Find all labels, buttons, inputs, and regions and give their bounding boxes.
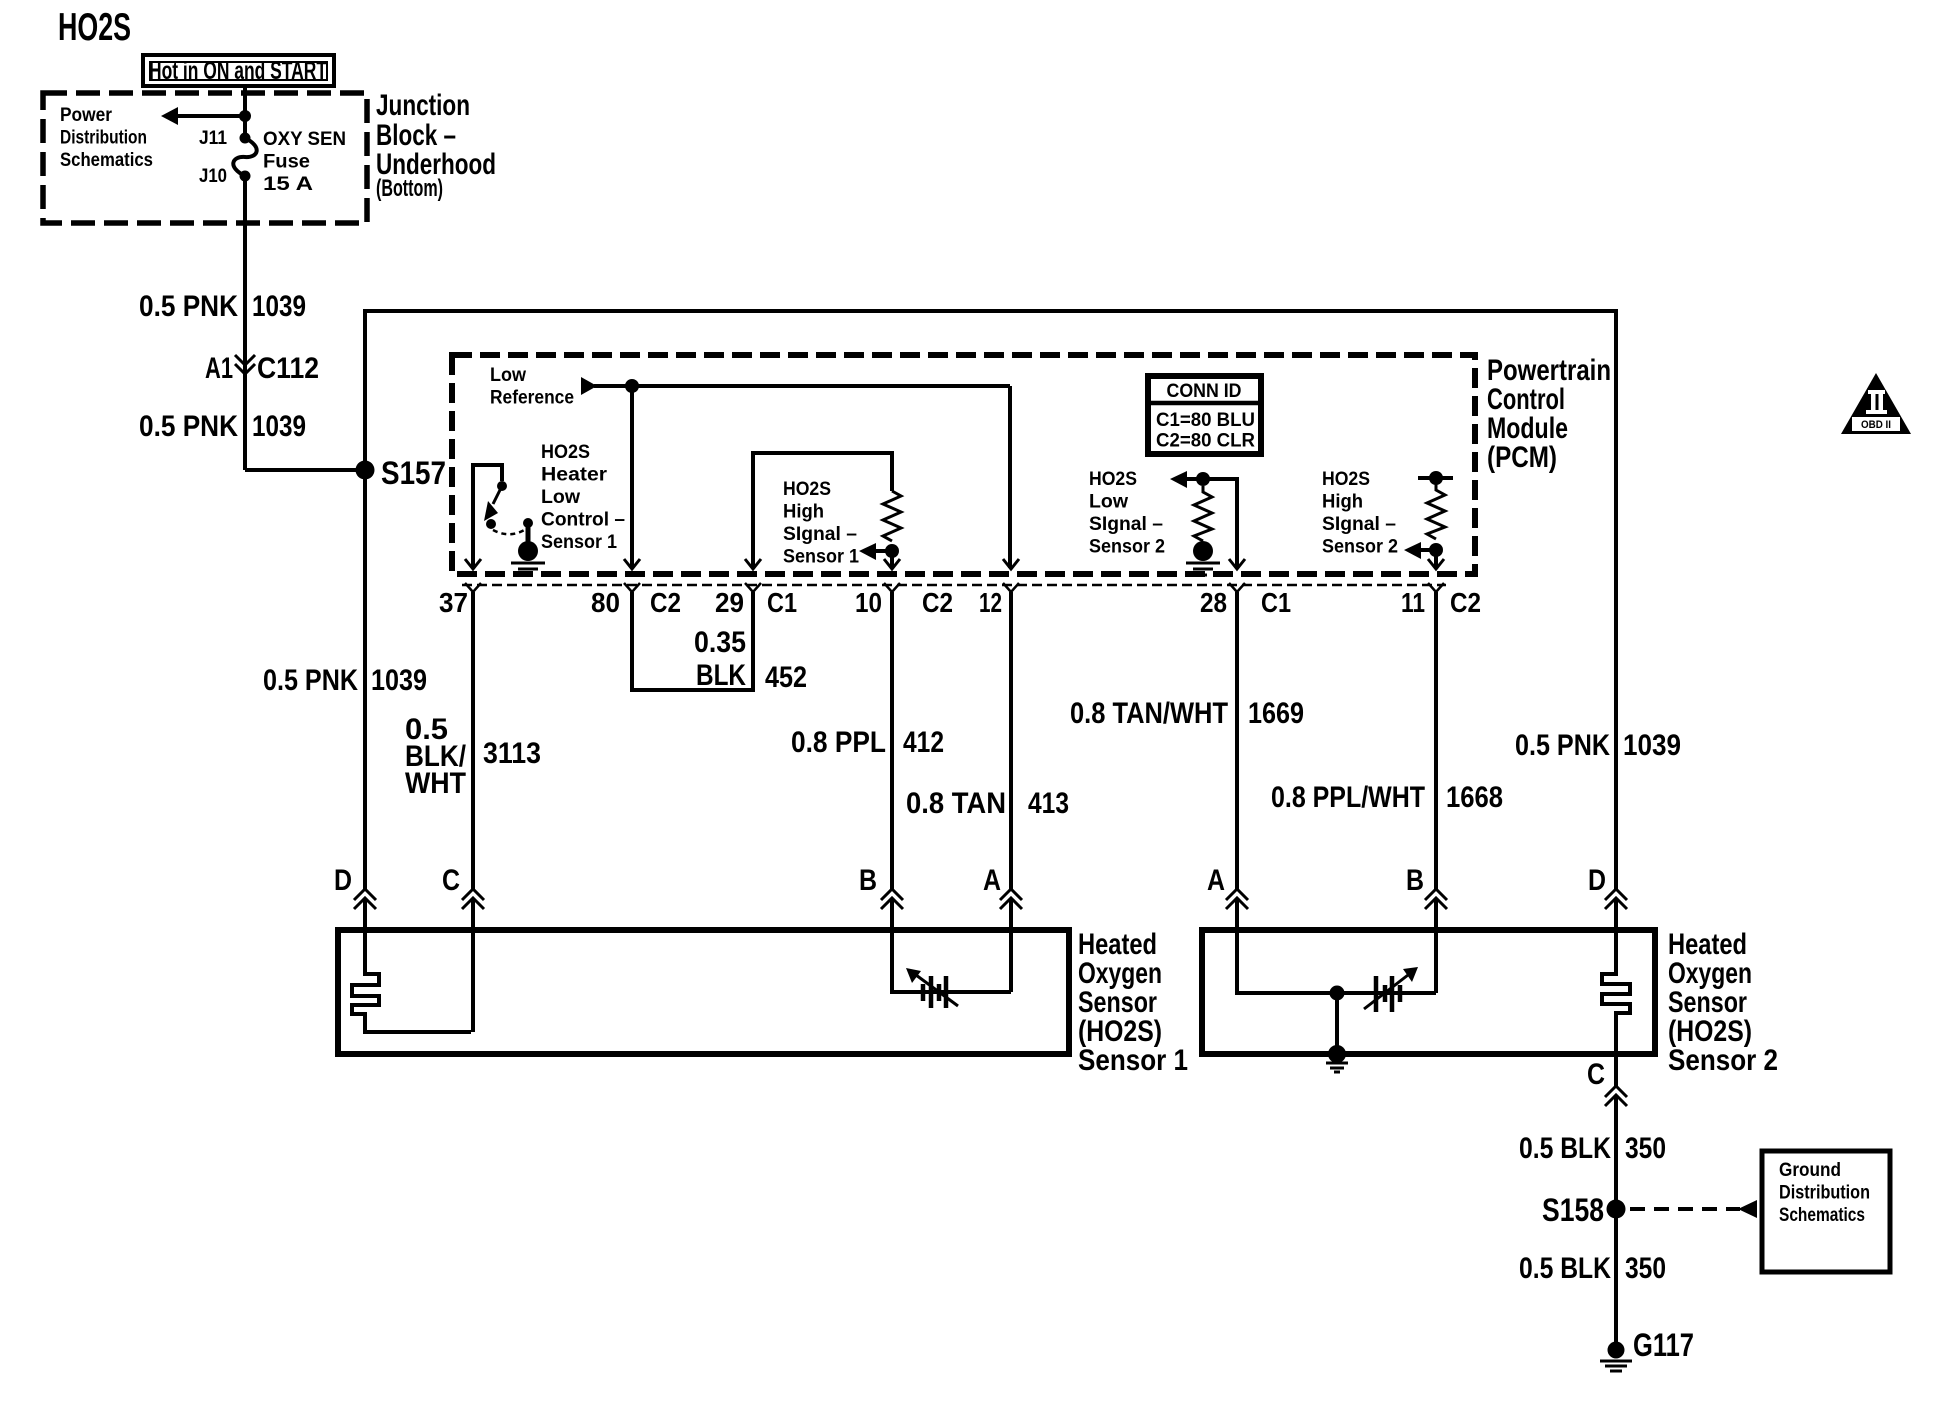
splice S158 [1607, 1200, 1626, 1219]
svg-text:SIgnal –: SIgnal – [783, 524, 857, 545]
pin arrow at pin 10 [884, 559, 900, 569]
node junction on low reference rail [625, 379, 639, 393]
pin arrow at pin 37 [465, 559, 481, 569]
svg-text:SIgnal –: SIgnal – [1089, 514, 1163, 535]
PCM dashed box [452, 355, 1475, 574]
node J11 [240, 133, 251, 144]
svg-text:D: D [1588, 864, 1606, 897]
pin terminal fork 11 [1428, 583, 1444, 592]
Ground Distribution Schematics box [1762, 1151, 1890, 1272]
svg-text:Control –: Control – [541, 510, 625, 531]
connector chevrons sensor1 pin A [1000, 889, 1022, 909]
svg-text:High: High [783, 502, 824, 523]
wires pin stubs into sensor 1 [365, 899, 1616, 930]
svg-text:BLK: BLK [696, 659, 746, 692]
svg-text:HO2S: HO2S [783, 479, 831, 500]
svg-text:350: 350 [1625, 1252, 1666, 1285]
wire low signal sensor 2 to pin 28 [1185, 479, 1237, 568]
svg-text:OBD II: OBD II [1861, 419, 1891, 431]
node J10 [240, 171, 251, 182]
svg-text:37: 37 [439, 587, 468, 618]
svg-text:WHT: WHT [405, 767, 466, 800]
pin arrow at pin 12 [1003, 559, 1019, 569]
junction block J1 dashed box [43, 93, 367, 223]
pin arrow at pin 11 [1428, 559, 1444, 569]
wire arrow tap high signal sensor 2 [1420, 548, 1436, 552]
switch contact dot left [486, 519, 496, 529]
arrowhead to Power Distribution Schematics [161, 107, 178, 125]
sensor 2 box Heated Oxygen Sensor (HO2S) Sensor 2 [1202, 930, 1655, 1054]
svg-text:Power: Power [60, 105, 113, 126]
wire contact to ground [526, 523, 531, 542]
wire 0.8 TAN 413 pin12 to sensor1 A [1009, 592, 1013, 889]
wire PNK bus: left drop, top rail, right drop [365, 311, 1616, 889]
svg-text:0.5 BLK: 0.5 BLK [1519, 1132, 1611, 1165]
svg-text:413: 413 [1028, 787, 1069, 820]
wire 0.5 BLK/WHT 3113 pin37 to sensor1 C [471, 592, 475, 889]
arrowhead to Ground Distribution Schematics [1738, 1200, 1757, 1218]
connector C112 pin A1 (inline double chevron) [235, 355, 255, 374]
svg-text:29: 29 [715, 587, 744, 618]
svg-text:C2: C2 [1450, 587, 1481, 618]
resistor HO2S high signal sensor 2 [1427, 478, 1445, 539]
svg-text:0.8 TAN/WHT: 0.8 TAN/WHT [1070, 697, 1228, 730]
pin arrow at pin 28 [1229, 559, 1245, 569]
sensing element bars sensor 1 [923, 976, 946, 1008]
svg-text:412: 412 [903, 726, 944, 759]
svg-text:Sensor 2: Sensor 2 [1322, 537, 1398, 558]
pin terminal fork 12 [1003, 583, 1019, 592]
svg-text:C2=80 CLR: C2=80 CLR [1156, 431, 1255, 452]
wire low reference rail [594, 384, 1010, 388]
svg-text:Sensor 2: Sensor 2 [1089, 537, 1165, 558]
svg-text:Schematics: Schematics [60, 150, 153, 171]
svg-text:0.8 PPL: 0.8 PPL [791, 726, 886, 759]
sensing element arrow sensor 2 [1364, 975, 1408, 1009]
svg-text:15 A: 15 A [263, 174, 313, 195]
svg-text:B: B [859, 864, 877, 897]
switch HO2S heater low control driver [473, 465, 502, 568]
svg-text:Distribution: Distribution [1779, 1183, 1870, 1204]
svg-text:D: D [334, 864, 352, 897]
svg-text:B: B [1406, 864, 1424, 897]
svg-text:(Bottom): (Bottom) [376, 175, 443, 202]
svg-text:OXY SEN: OXY SEN [263, 129, 346, 150]
node junction dot at hot feed branch [239, 110, 251, 122]
svg-text:Fuse: Fuse [263, 152, 310, 173]
svg-text:HO2S: HO2S [541, 442, 590, 463]
node resistor top junction (low signal sensor 2) [1196, 472, 1210, 486]
connector chevrons sensor1 pin C [462, 889, 484, 909]
svg-text:C2: C2 [650, 587, 681, 618]
wire 0.8 PPL 412 pin10 to sensor1 B [890, 592, 894, 889]
connector chevrons sensor1 pin B [881, 889, 903, 909]
svg-text:1668: 1668 [1446, 781, 1503, 814]
svg-text:C2: C2 [922, 587, 953, 618]
connector chevrons sensor1 pin D [354, 889, 376, 909]
svg-text:HO2S: HO2S [1322, 469, 1370, 490]
svg-text:S158: S158 [1542, 1192, 1604, 1228]
fuse OXY SEN Fuse 15 A [233, 138, 256, 176]
arrowhead low signal sensor 2 [1170, 471, 1187, 488]
ground symbol (PCM internal, low signal sensor 2) [1193, 541, 1213, 561]
wire pin 29 riser to resistor [753, 453, 892, 568]
svg-text:J11: J11 [199, 128, 227, 149]
svg-text:1039: 1039 [252, 410, 306, 443]
wire branch to power distribution arrow [176, 114, 245, 118]
svg-text:0.8 PPL/WHT: 0.8 PPL/WHT [1271, 781, 1425, 814]
connector chevrons sensor2 pin B [1425, 889, 1447, 909]
wire 0.8 PPL/WHT 1668 pin11 to sensor2 B [1434, 592, 1438, 889]
svg-text:(PCM): (PCM) [1487, 441, 1557, 474]
svg-text:G117: G117 [1633, 1327, 1694, 1363]
wire resistor top bar (high signal sensor 2) [1418, 476, 1453, 480]
heater element sensor 2 [1602, 930, 1630, 1054]
node resistor bottom junction dot [1429, 543, 1443, 557]
svg-text:Hot in ON and START: Hot in ON and START [149, 57, 327, 85]
svg-text:1039: 1039 [1623, 729, 1681, 762]
svg-text:0.5 BLK: 0.5 BLK [1519, 1252, 1611, 1285]
wire 0.5 BLK 350 lower [1614, 1218, 1618, 1345]
sensing element bars sensor 2 [1376, 976, 1400, 1012]
svg-text:C: C [442, 864, 460, 897]
svg-text:Reference: Reference [490, 388, 574, 409]
CONN ID box [1148, 376, 1261, 454]
wire 0.5 PNK 1039 from fuse down [243, 176, 247, 470]
wire 0.5 BLK 350 upper [1614, 1095, 1618, 1200]
svg-text:80: 80 [591, 587, 620, 618]
svg-text:0.5 PNK: 0.5 PNK [1515, 729, 1610, 762]
wire into splice S157 [245, 468, 365, 472]
wire resistor to pin 11 [1434, 550, 1438, 568]
svg-text:28: 28 [1200, 587, 1227, 618]
dashed reference wire S158 to ground distribution [1630, 1207, 1740, 1211]
svg-text:0.5 PNK: 0.5 PNK [139, 410, 238, 443]
switch contact dot right [523, 518, 533, 528]
svg-text:0.35: 0.35 [694, 626, 746, 659]
node resistor top junction dot [1429, 471, 1443, 485]
wire 0.35 BLK 452 jumper pin80 to pin29 [632, 592, 753, 690]
wire sensor2 heater out through pin C [1614, 1054, 1618, 1086]
svg-text:Low: Low [541, 487, 580, 508]
connector chevrons sensor2 pin A [1226, 889, 1248, 909]
svg-text:C112: C112 [257, 352, 319, 385]
svg-text:C: C [1587, 1058, 1605, 1091]
svg-text:HO2S: HO2S [1089, 469, 1137, 490]
svg-text:1039: 1039 [252, 290, 306, 323]
pin arrow at pin 80 [624, 559, 640, 569]
svg-text:Sensor 2: Sensor 2 [1668, 1044, 1778, 1077]
OBD II symbol triangle [1841, 373, 1911, 434]
switch blade arrow [493, 486, 502, 504]
svg-text:J10: J10 [199, 166, 227, 187]
wire sensor1 B drop [892, 930, 1011, 992]
pin terminal fork 80 [624, 583, 640, 592]
node sensor2 signal junction [1330, 986, 1345, 1001]
svg-text:3113: 3113 [483, 737, 541, 770]
arrowhead high signal sensor 1 [859, 543, 876, 560]
svg-text:350: 350 [1625, 1132, 1666, 1165]
svg-text:CONN ID: CONN ID [1167, 381, 1242, 402]
svg-text:10: 10 [855, 587, 882, 618]
arrowhead Low Reference [581, 377, 597, 395]
wire sensor1 C drop to heater [471, 930, 475, 1032]
svg-text:0.5 PNK: 0.5 PNK [263, 664, 358, 697]
pin terminal fork 37 [465, 583, 481, 592]
svg-text:Ground: Ground [1779, 1160, 1841, 1181]
wire sensor1 A drop [1009, 930, 1013, 992]
wire sensor2 B drop [1434, 930, 1438, 993]
sensing element arrow sensor 1 [916, 975, 958, 1006]
ground G117 [1608, 1342, 1625, 1359]
svg-text:12: 12 [979, 587, 1002, 618]
node resistor bottom junction [885, 544, 899, 558]
switch travel dashed arc [493, 529, 526, 534]
arrowhead high signal sensor 2 [1404, 542, 1421, 559]
wire 0.8 TAN/WHT 1669 pin28 to sensor2 A [1235, 592, 1239, 889]
sensor 1 box Heated Oxygen Sensor (HO2S) Sensor 1 [338, 930, 1069, 1054]
PCM connector face (thin dashed line) [462, 584, 1446, 587]
wire low reference to pin 12 [1008, 386, 1012, 568]
svg-text:C1: C1 [1261, 587, 1291, 618]
svg-text:Low: Low [490, 365, 526, 386]
svg-text:A1: A1 [205, 352, 233, 385]
svg-text:Sensor 1: Sensor 1 [783, 547, 859, 568]
svg-text:1669: 1669 [1248, 697, 1304, 730]
svg-text:Heater: Heater [541, 465, 608, 486]
svg-text:0.8 TAN: 0.8 TAN [906, 787, 1006, 820]
connector chevrons sensor2 pin C [1605, 1086, 1627, 1106]
connector chevrons sensor2 pin D [1605, 889, 1627, 909]
Hot in ON and START box [143, 55, 334, 86]
wire sensor2 A drop [1237, 930, 1436, 993]
svg-text:Junction: Junction [376, 89, 470, 122]
splice S157 [356, 461, 375, 480]
svg-text:Schematics: Schematics [1779, 1205, 1865, 1226]
svg-text:S157: S157 [381, 455, 446, 491]
wire hot feed from Hot box down to J11 [243, 86, 247, 136]
pin terminal fork 29 [745, 583, 761, 592]
svg-text:High: High [1322, 492, 1363, 513]
svg-text:452: 452 [765, 661, 807, 694]
wire low reference to pin 80 [630, 386, 634, 568]
pin terminal fork 10 [884, 583, 900, 592]
svg-text:SIgnal –: SIgnal – [1322, 514, 1396, 535]
ground symbol sensor 2 case [1328, 1045, 1346, 1063]
pin arrow at pin 29 [745, 559, 761, 569]
svg-text:C1=80 BLU: C1=80 BLU [1156, 410, 1255, 431]
resistor HO2S high signal sensor 1 [883, 491, 901, 541]
svg-text:Sensor 1: Sensor 1 [1078, 1044, 1188, 1077]
svg-text:Distribution: Distribution [60, 128, 147, 149]
heater element sensor 1 [352, 930, 471, 1032]
svg-text:C1: C1 [767, 587, 797, 618]
resistor HO2S low signal sensor 2 [1194, 486, 1212, 541]
svg-text:Sensor 1: Sensor 1 [541, 532, 617, 553]
svg-text:11: 11 [1401, 587, 1425, 618]
pin terminal fork 28 [1229, 583, 1245, 592]
svg-text:0.5 PNK: 0.5 PNK [139, 290, 238, 323]
svg-text:Low: Low [1089, 492, 1128, 513]
svg-text:HO2S: HO2S [58, 6, 131, 49]
wire arrow tap high signal sensor 1 [874, 549, 892, 553]
svg-text:1039: 1039 [371, 664, 427, 697]
svg-text:A: A [983, 864, 1001, 897]
wire resistor to pin 10 [890, 551, 894, 568]
wire sensor2 junction to case ground [1335, 993, 1339, 1050]
ground symbol (PCM internal, heater control) [518, 541, 538, 561]
switch pivot dot [497, 481, 507, 491]
svg-text:A: A [1207, 864, 1225, 897]
